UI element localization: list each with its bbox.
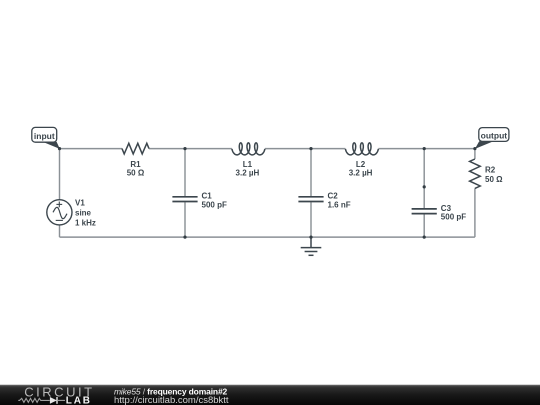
wire V1 bottom lead <box>59 225 61 237</box>
node C (L2/C3) <box>423 147 426 150</box>
node output <box>473 147 476 150</box>
svg-text:C2: C2 <box>328 192 339 201</box>
node label output <box>479 128 509 142</box>
output pointer <box>475 141 494 149</box>
node C3 lead junction <box>423 185 426 188</box>
wire L2 to output node <box>378 148 475 150</box>
inductor L1 <box>232 143 265 155</box>
capacitor C3 <box>412 209 437 214</box>
svg-text:C1: C1 <box>202 192 213 201</box>
wire C2 top branch <box>310 149 312 196</box>
ground <box>301 237 322 255</box>
wire V1 top lead <box>59 149 61 200</box>
node C1 ground rail <box>183 236 186 239</box>
node input <box>58 147 61 150</box>
capacitor C2 <box>298 197 323 202</box>
svg-text:sine: sine <box>75 209 92 218</box>
node label input <box>32 127 57 142</box>
svg-text:output: output <box>481 131 508 141</box>
svg-text:R2: R2 <box>485 166 496 175</box>
svg-text:500 pF: 500 pF <box>441 213 466 222</box>
svg-text:C3: C3 <box>441 204 452 213</box>
V1 minus sign <box>56 219 63 221</box>
node A (R1/C1/L1) <box>183 147 186 150</box>
svg-text:V1: V1 <box>75 198 85 207</box>
inductor L2 <box>345 143 378 155</box>
wire R2 top lead <box>474 149 476 159</box>
node B (L1/C2/L2) <box>309 147 312 150</box>
wire bottom rail <box>60 236 475 238</box>
voltage source V1 <box>47 200 72 225</box>
svg-text:50 Ω: 50 Ω <box>127 168 145 177</box>
wire C1 bottom branch <box>184 202 186 237</box>
input pointer <box>43 142 60 149</box>
svg-text:http://circuitlab.com/cs8bktt: http://circuitlab.com/cs8bktt <box>114 395 229 405</box>
wire C3 top branch <box>423 149 425 209</box>
svg-text:500 pF: 500 pF <box>202 200 227 209</box>
svg-text:3.2 µH: 3.2 µH <box>349 168 373 177</box>
wire C2 bottom branch <box>310 202 312 237</box>
logo resistor symbol <box>18 398 50 402</box>
svg-text:3.2 µH: 3.2 µH <box>236 168 260 177</box>
wire C3 bottom branch <box>423 214 425 237</box>
capacitor C1 <box>172 197 197 202</box>
svg-text:input: input <box>34 131 55 141</box>
V1 plus sign <box>56 202 62 208</box>
svg-text:1.6 nF: 1.6 nF <box>328 200 351 209</box>
svg-text:50 Ω: 50 Ω <box>485 175 503 184</box>
wire L1 to L2 (through node B) <box>265 148 346 150</box>
wire R2 bottom lead <box>474 188 476 237</box>
svg-text:1 kHz: 1 kHz <box>75 219 96 228</box>
wire input node to R1 <box>60 148 123 150</box>
wire R1 to L1 (through node A) <box>149 148 232 150</box>
svg-text:LAB: LAB <box>66 395 92 405</box>
footer bar <box>0 385 540 405</box>
node C3 ground rail <box>423 236 426 239</box>
V1 sine wave <box>53 207 67 218</box>
node C2 ground rail <box>309 236 312 239</box>
resistor R1 <box>122 143 149 154</box>
wire C1 top branch <box>184 149 186 196</box>
resistor R2 <box>470 159 481 188</box>
logo diode symbol <box>50 397 57 404</box>
